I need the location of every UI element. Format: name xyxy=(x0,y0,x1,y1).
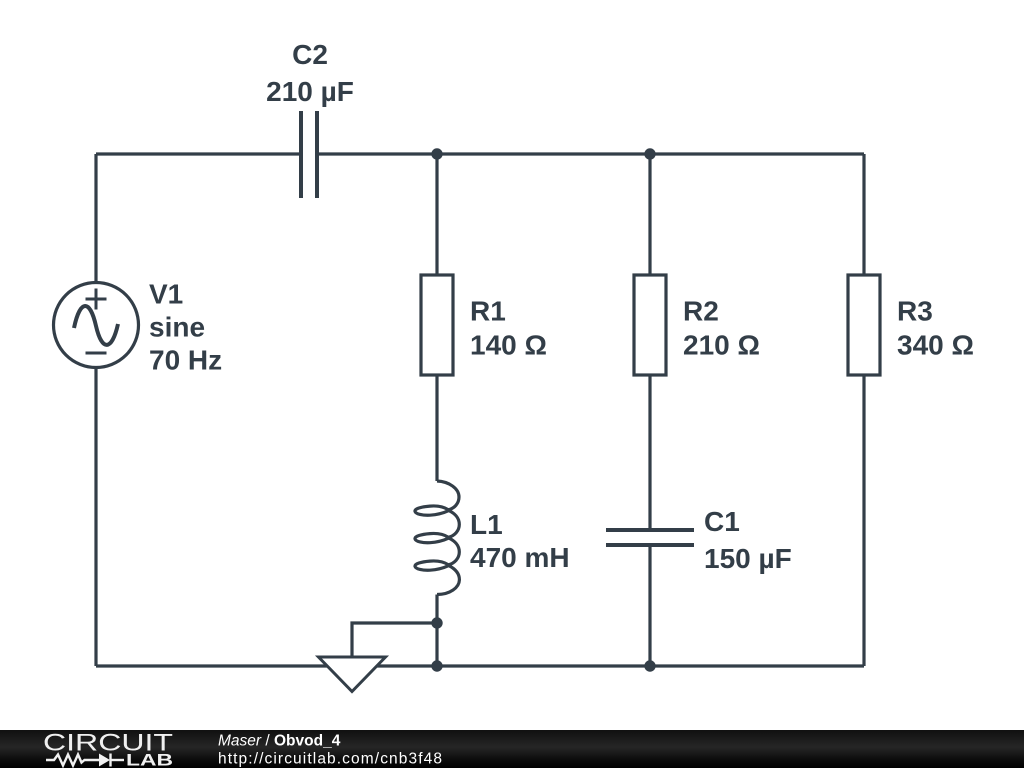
svg-text:V1: V1 xyxy=(149,279,183,310)
svg-text:C1: C1 xyxy=(704,506,740,537)
svg-text:210 Ω: 210 Ω xyxy=(683,330,760,361)
svg-text:C2: C2 xyxy=(292,39,328,70)
svg-text:70 Hz: 70 Hz xyxy=(149,345,222,376)
svg-text:470 mH: 470 mH xyxy=(470,542,570,573)
svg-text:R1: R1 xyxy=(470,296,506,327)
svg-text:L1: L1 xyxy=(470,509,503,540)
svg-text:R2: R2 xyxy=(683,296,719,327)
svg-text:R3: R3 xyxy=(897,296,933,327)
svg-text:http://circuitlab.com/cnb3f48: http://circuitlab.com/cnb3f48 xyxy=(218,751,442,768)
svg-text:sine: sine xyxy=(149,312,205,343)
svg-text:150 µF: 150 µF xyxy=(704,543,792,574)
svg-text:340 Ω: 340 Ω xyxy=(897,330,974,361)
svg-text:210 µF: 210 µF xyxy=(266,76,354,107)
svg-text:Maser / Obvod_4: Maser / Obvod_4 xyxy=(218,733,341,750)
svg-text:LAB: LAB xyxy=(126,751,173,768)
svg-text:140 Ω: 140 Ω xyxy=(470,330,547,361)
